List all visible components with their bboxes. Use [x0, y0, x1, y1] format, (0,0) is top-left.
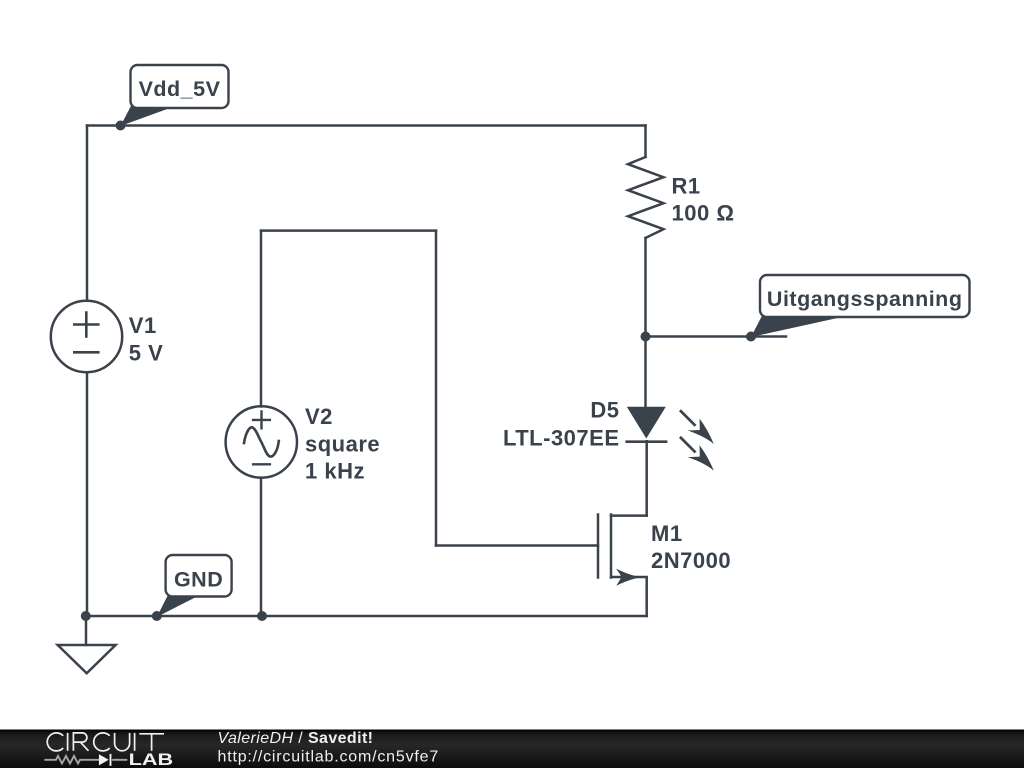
svg-text:ValerieDH / Savedit!: ValerieDH / Savedit!	[218, 730, 374, 747]
logo CIRCUIT lettering	[47, 733, 164, 751]
junction node V2 bottom	[257, 611, 267, 621]
wire left: top corner to V1	[86, 126, 89, 301]
net flag Vdd_5V box	[131, 65, 229, 108]
V1 minus sign	[74, 351, 98, 354]
wire R1 bottom lead to node	[644, 238, 647, 337]
wire V2 top lead up	[260, 231, 263, 407]
LED D5 triangle	[627, 407, 666, 439]
net flag GND box	[166, 555, 232, 597]
V2 sine wave	[244, 427, 279, 456]
svg-text:square: square	[305, 432, 380, 457]
svg-text:http://circuitlab.com/cn5vfe7: http://circuitlab.com/cn5vfe7	[218, 749, 440, 766]
logo diode cathode bar	[110, 754, 112, 766]
svg-text:R1: R1	[672, 174, 701, 199]
svg-text:GND: GND	[174, 567, 223, 591]
svg-text:Vdd_5V: Vdd_5V	[139, 77, 221, 101]
svg-text:D5: D5	[590, 398, 619, 423]
svg-text:Uitgangsspanning: Uitgangsspanning	[767, 287, 963, 311]
ground symbol triangle	[58, 645, 116, 673]
junction node flag attach (Uitgangsspanning)	[746, 332, 756, 342]
wire V2 top horizontal	[261, 229, 436, 232]
junction node output	[641, 332, 651, 342]
voltage source V2 circle	[226, 406, 297, 477]
junction node GND attach	[152, 611, 162, 621]
wire bottom bus	[86, 615, 647, 618]
footer bar	[0, 730, 1024, 768]
net flag Uitgangsspanning box	[760, 275, 970, 317]
junction node ground-left	[81, 611, 91, 621]
svg-text:LAB: LAB	[129, 751, 174, 768]
V2 minus sign	[253, 463, 270, 465]
svg-text:5 V: 5 V	[129, 341, 164, 366]
LED arrow 1	[674, 405, 720, 451]
junction node top-left (Vdd attach)	[116, 121, 126, 131]
wire top bus	[87, 124, 646, 127]
V1 plus sign	[74, 313, 98, 337]
net flag Vdd_5V tail	[121, 104, 171, 126]
voltage source V1 circle	[51, 301, 122, 372]
LED D5 cathode bar	[625, 440, 667, 443]
svg-text:2N7000: 2N7000	[651, 548, 731, 573]
svg-text:M1: M1	[651, 521, 683, 546]
svg-text:100 Ω: 100 Ω	[672, 201, 735, 226]
svg-text:LTL-307EE: LTL-307EE	[503, 426, 620, 451]
V2 plus sign	[253, 412, 270, 429]
MOSFET M1 drain bend	[611, 514, 647, 517]
wire V1 bottom to ground bus	[86, 372, 89, 616]
wire R1 top lead	[644, 126, 647, 158]
MOSFET M1 channel bar	[610, 515, 613, 578]
wire LED cathode to MOSFET drain	[645, 441, 648, 515]
wire V2 bottom lead	[260, 478, 263, 616]
LED arrow 2	[674, 431, 720, 477]
net flag GND tail	[157, 593, 197, 617]
svg-text:V2: V2	[305, 404, 333, 429]
MOSFET M1 source bend	[611, 577, 647, 616]
svg-text:1 kHz: 1 kHz	[305, 459, 365, 484]
resistor R1 zigzag	[628, 157, 664, 238]
wire V2 right vertical to gate	[435, 231, 438, 546]
wire ground lead	[85, 616, 88, 645]
net flag Uitgangsspanning tail	[751, 312, 842, 337]
MOSFET source arrow	[616, 569, 640, 586]
logo schematic wire	[44, 756, 127, 764]
MOSFET M1 gate bar	[597, 515, 600, 578]
wire gate	[436, 544, 598, 547]
logo diode triangle	[99, 754, 109, 765]
wire node to LED anode	[644, 337, 647, 407]
wire node stub right	[646, 335, 787, 338]
svg-text:V1: V1	[129, 313, 157, 338]
